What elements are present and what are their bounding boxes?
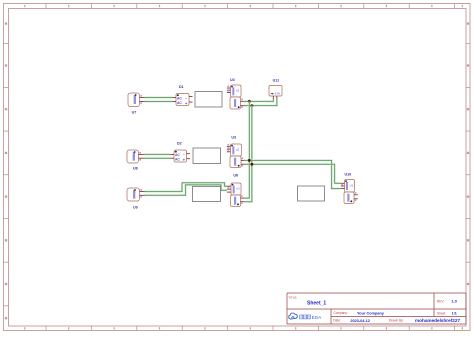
bridge rectifier D1 [176, 85, 189, 106]
svg-text:1.0: 1.0 [451, 299, 457, 304]
junction row1 net B [250, 104, 253, 107]
svg-text:D1: D1 [179, 85, 184, 89]
bridge rectifier D2 [174, 141, 187, 162]
ic U6 lower section [231, 195, 241, 207]
svg-text:U10: U10 [345, 173, 352, 177]
D2 right pins [187, 154, 191, 159]
svg-text:1/1: 1/1 [452, 312, 457, 316]
svg-text:U3: U3 [231, 136, 236, 140]
connector U9 [127, 188, 140, 209]
wire U4 lower pin1 to U11 pin1 [244, 99, 273, 101]
vertical bus wire net A [244, 101, 249, 198]
wire U9.1 to U6 upper pin1 [145, 183, 227, 192]
junction row2 net A [248, 159, 251, 162]
U8 pin 1 [139, 152, 144, 155]
module box row3 right [298, 186, 325, 201]
wire U3 lower pin1 to U10 upper pin3 [244, 160, 341, 188]
svg-text:Drawn By:: Drawn By: [389, 319, 404, 323]
svg-text:2023-04-12: 2023-04-12 [350, 319, 370, 323]
svg-text:U8: U8 [133, 166, 138, 170]
U6 left pins 1-3 [227, 186, 231, 192]
U7 pin 1 [140, 95, 145, 98]
junction row1 net A [248, 100, 251, 103]
ic U4 lower section [230, 97, 241, 109]
svg-text:U6: U6 [233, 174, 238, 178]
svg-text:D2: D2 [177, 141, 182, 145]
title block [287, 293, 466, 324]
svg-text:Sheet:: Sheet: [437, 311, 446, 315]
svg-text:TITLE:: TITLE: [288, 296, 297, 300]
connector U7 [128, 93, 140, 115]
U6 lower right pins [241, 195, 245, 204]
ic U3 lower section [230, 156, 241, 168]
U4 lower right pins [241, 99, 245, 109]
svg-text:U7: U7 [132, 111, 137, 115]
svg-text:EDA: EDA [312, 315, 322, 320]
svg-text:Your Company: Your Company [357, 311, 385, 315]
svg-text:U9: U9 [133, 205, 138, 209]
wire U7.2 to D1.AC2 [145, 99, 173, 104]
D1 right pins [189, 97, 193, 103]
ic U4 upper section [230, 78, 241, 97]
U3 lower right pins [241, 158, 244, 167]
U10 lower right pins [354, 192, 358, 201]
wire U4 lower pin2 to U11 pin2 [244, 99, 277, 106]
wire U8.2 to D2.AC2 [144, 156, 171, 161]
wire U7.1 to D1.AC1 [145, 95, 173, 100]
junction row2 net B [250, 163, 253, 166]
U3 left pins 1-3 [227, 144, 231, 152]
svg-text:Company:: Company: [333, 311, 348, 315]
vertical bus wire net B [244, 106, 252, 202]
svg-text:AC: AC [177, 96, 182, 100]
connector U8 [127, 150, 139, 170]
module U11 [269, 79, 282, 96]
module box row2 [193, 148, 221, 164]
svg-text:AC: AC [175, 153, 180, 157]
svg-text:REV:: REV: [437, 299, 444, 303]
EasyEDA logo [289, 313, 322, 320]
module box row3 [193, 187, 221, 202]
svg-text:U11: U11 [273, 79, 280, 83]
U8 pin 2 [139, 158, 144, 160]
U11 bottom pins [273, 96, 277, 99]
U10 left pins 1-3 [341, 183, 345, 188]
D2 left pins [171, 154, 175, 158]
ic U3 upper section [231, 136, 242, 156]
ic U10 upper section [345, 173, 355, 192]
U9 pin 1 [140, 189, 145, 192]
svg-text:Date:: Date: [333, 319, 341, 323]
U7 pin 2 [140, 102, 145, 104]
svg-text:Sheet_1: Sheet_1 [307, 300, 326, 306]
svg-text:AC: AC [177, 101, 182, 105]
wire U3 lower pin2 to U10 upper pin1 [244, 164, 341, 183]
svg-text:mohamedelshref227: mohamedelshref227 [415, 318, 460, 323]
wire U9.2 to U6 upper pin2 [145, 185, 227, 195]
ic U6 upper section [231, 174, 241, 195]
U9 pin 2 [140, 195, 145, 197]
module box row1 [195, 92, 222, 108]
wire U8.1 to D2.AC1 [144, 152, 171, 157]
ic U10 lower section [344, 192, 354, 204]
U4 left pins 1-3 [227, 86, 231, 93]
D1 left pins [173, 98, 177, 102]
svg-text:AC: AC [175, 158, 180, 162]
